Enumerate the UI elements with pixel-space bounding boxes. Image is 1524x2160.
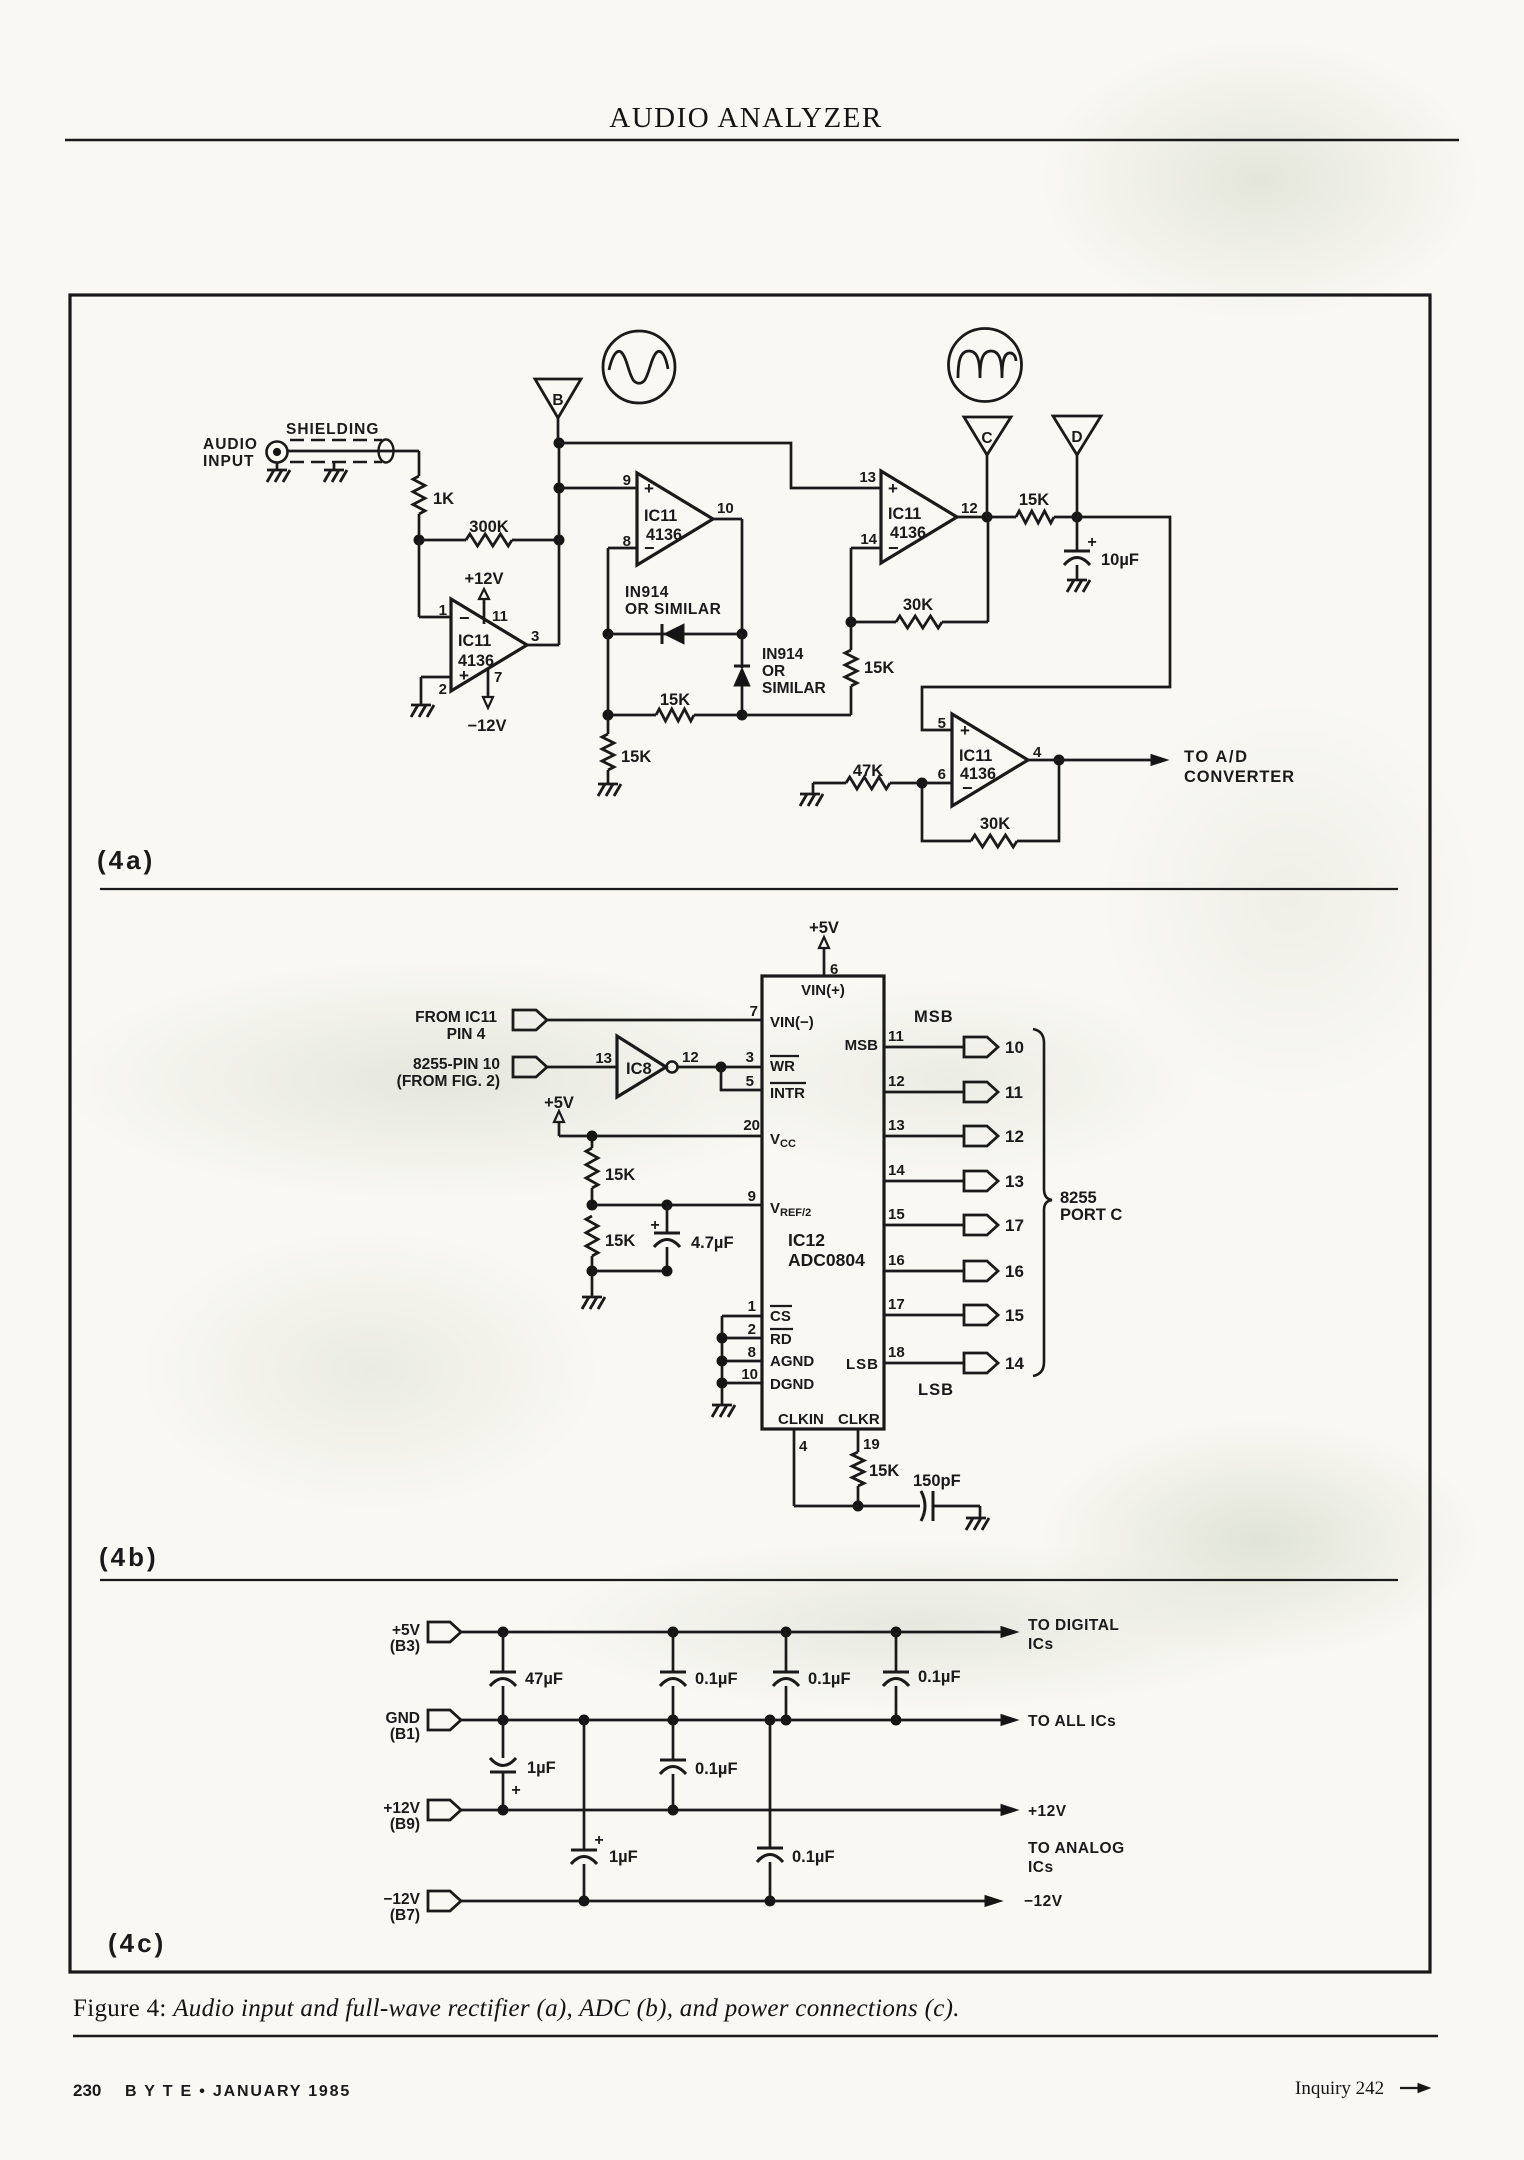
wire to INTR pin 5 xyxy=(721,1067,762,1090)
svg-text:FROM IC11: FROM IC11 xyxy=(415,1009,497,1026)
svg-text:TO ANALOG: TO ANALOG xyxy=(1028,1840,1125,1857)
svg-text:15K: 15K xyxy=(621,748,651,766)
output pin 13 wire to port bit 12 xyxy=(884,1135,964,1138)
terminal triangle B xyxy=(535,379,581,418)
svg-text:(FROM FIG. 2): (FROM FIG. 2) xyxy=(397,1073,500,1090)
svg-text:ICs: ICs xyxy=(1028,1859,1054,1876)
output connector 16 xyxy=(964,1261,998,1281)
svg-text:1K: 1K xyxy=(433,490,454,508)
svg-text:(B9): (B9) xyxy=(390,1816,420,1833)
resistor 15K upper divider xyxy=(591,1136,594,1148)
node dots +12V rail xyxy=(498,1805,508,1815)
node CLK junction xyxy=(853,1501,863,1511)
svg-text:VIN(−): VIN(−) xyxy=(770,1014,814,1031)
svg-text:VREF/2: VREF/2 xyxy=(770,1200,811,1219)
svg-text:12: 12 xyxy=(961,500,978,517)
divider line between 4b and 4c xyxy=(100,1579,1398,1581)
capacitor 0.1uF (e) xyxy=(757,1847,783,1850)
svg-text:+: + xyxy=(960,721,970,740)
svg-text:TO A/D: TO A/D xyxy=(1184,748,1249,766)
svg-text:WR: WR xyxy=(770,1058,795,1075)
svg-text:IN914: IN914 xyxy=(762,646,804,663)
wire 30K up to output node xyxy=(987,517,990,622)
svg-text:11: 11 xyxy=(888,1028,904,1045)
audio input connector xyxy=(267,442,288,463)
svg-text:Inquiry 242: Inquiry 242 xyxy=(1295,2078,1384,2099)
svg-text:1µF: 1µF xyxy=(609,1848,638,1866)
output connector 12 xyxy=(964,1126,998,1146)
svg-text:LSB: LSB xyxy=(846,1356,879,1373)
svg-text:Figure 4: Audio input and full: Figure 4: Audio input and full-wave rect… xyxy=(73,1995,960,2022)
svg-text:ICs: ICs xyxy=(1028,1636,1054,1653)
figure outer border frame xyxy=(70,295,1430,1972)
wire GND to -12V (left) xyxy=(583,1720,586,1850)
node VREF junction xyxy=(587,1200,597,1210)
svg-text:10: 10 xyxy=(741,1366,758,1383)
node diode right xyxy=(737,629,747,639)
svg-text:15K: 15K xyxy=(605,1166,635,1184)
wire 15K row to right column xyxy=(742,714,851,717)
svg-text:INPUT: INPUT xyxy=(203,453,255,470)
terminal triangle C xyxy=(964,417,1011,455)
pin 7 -12V supply arrow xyxy=(487,668,490,697)
svg-text:12: 12 xyxy=(682,1049,699,1066)
node 300K right end xyxy=(554,535,564,545)
ground at shield tube xyxy=(333,462,336,470)
wire 150pF to ground xyxy=(933,1505,980,1508)
wire output to A/D arrow xyxy=(1028,759,1160,762)
wire op-amp IC11a output xyxy=(527,644,559,647)
ground below 10uF xyxy=(1067,579,1087,582)
inverter IC8 xyxy=(617,1036,666,1097)
pin 11 +12V supply arrow xyxy=(483,600,486,624)
output connector 11 xyxy=(964,1082,998,1102)
pin 19 wire CLKR with 15K xyxy=(857,1429,860,1452)
svg-text:8255: 8255 xyxy=(1060,1189,1097,1207)
svg-text:1: 1 xyxy=(439,602,447,619)
svg-text:3: 3 xyxy=(531,628,539,645)
svg-text:−12V: −12V xyxy=(383,1891,420,1908)
svg-text:4136: 4136 xyxy=(646,526,682,544)
output connector 14 xyxy=(964,1353,998,1373)
svg-text:IC8: IC8 xyxy=(626,1060,652,1078)
op-amp IC11b 4136 xyxy=(637,473,713,565)
wire audio center conductor xyxy=(287,450,419,453)
op-amp IC11a 4136 xyxy=(451,599,527,691)
sine-wave symbol circle xyxy=(603,331,675,403)
capacitor 0.1uF (b) xyxy=(785,1632,788,1672)
node WR/INTR junction xyxy=(716,1062,726,1072)
svg-text:4: 4 xyxy=(1033,744,1042,761)
capacitor 10uF xyxy=(1076,517,1079,551)
svg-text:IC12: IC12 xyxy=(788,1230,825,1250)
svg-text:OR: OR xyxy=(762,663,785,680)
svg-text:12: 12 xyxy=(1005,1127,1024,1146)
output pin 12 wire to port bit 11 xyxy=(884,1091,964,1094)
power rail &#8722;12V xyxy=(461,1900,988,1903)
svg-text:15K: 15K xyxy=(1019,491,1049,509)
brace 8255 PORT C xyxy=(1033,1029,1052,1376)
op-amp IC11d 4136 xyxy=(952,714,1028,806)
output connector 13 xyxy=(964,1171,998,1191)
svg-text:+: + xyxy=(594,1832,603,1849)
wire node to pin 6 xyxy=(922,782,952,785)
svg-text:14: 14 xyxy=(1005,1354,1024,1373)
svg-text:3: 3 xyxy=(746,1049,754,1066)
svg-text:MSB: MSB xyxy=(914,1008,954,1026)
svg-text:16: 16 xyxy=(888,1252,905,1269)
capacitor 1uF polarized (top) xyxy=(502,1720,505,1758)
svg-text:2: 2 xyxy=(748,1321,756,1338)
svg-text:IN914: IN914 xyxy=(625,584,669,601)
output connector 15 xyxy=(964,1305,998,1325)
full-wave symbol circle xyxy=(949,329,1022,402)
svg-text:VIN(+): VIN(+) xyxy=(801,982,845,999)
svg-text:4: 4 xyxy=(799,1438,808,1455)
node 1K/300K junction xyxy=(414,535,424,545)
svg-text:(B3): (B3) xyxy=(390,1638,420,1655)
svg-text:CONVERTER: CONVERTER xyxy=(1184,768,1295,786)
svg-text:15K: 15K xyxy=(864,659,894,677)
svg-text:CS: CS xyxy=(770,1308,791,1325)
svg-text:4136: 4136 xyxy=(960,765,996,783)
svg-text:13: 13 xyxy=(1005,1172,1024,1191)
output pin 16 wire to port bit 16 xyxy=(884,1270,964,1273)
svg-text:4136: 4136 xyxy=(458,652,494,670)
node C junction xyxy=(982,512,992,522)
svg-text:13: 13 xyxy=(859,469,876,486)
wire IC11b output down xyxy=(713,518,742,521)
svg-text:11: 11 xyxy=(1005,1083,1023,1102)
svg-text:17: 17 xyxy=(888,1296,905,1313)
node diode left xyxy=(603,629,613,639)
wire node down to op-amp pin 1 xyxy=(418,540,421,617)
svg-text:230: 230 xyxy=(73,2081,101,2100)
svg-text:+5V: +5V xyxy=(809,919,839,937)
svg-text:−: − xyxy=(459,608,470,628)
wire input to 1K resistor xyxy=(418,451,421,476)
svg-text:VCC: VCC xyxy=(770,1131,796,1150)
diode IN914 horizontal xyxy=(608,633,742,636)
svg-text:7: 7 xyxy=(494,669,502,686)
svg-text:30K: 30K xyxy=(903,596,933,614)
svg-text:IC11: IC11 xyxy=(959,747,992,765)
svg-text:10: 10 xyxy=(1005,1038,1024,1057)
node output junction xyxy=(1054,755,1064,765)
svg-text:12: 12 xyxy=(888,1073,905,1090)
capacitor 0.1uF (d) xyxy=(672,1720,675,1760)
svg-text:SIMILAR: SIMILAR xyxy=(762,680,826,697)
svg-text:INTR: INTR xyxy=(770,1085,805,1102)
wire IC11c output xyxy=(957,516,988,519)
wire D node loop to IC11d pin 5 xyxy=(922,517,1170,730)
resistor 1K xyxy=(413,476,425,514)
svg-text:14: 14 xyxy=(860,531,877,548)
svg-text:15: 15 xyxy=(888,1206,905,1223)
wire B vertical column xyxy=(558,443,561,645)
node pin 9 junction xyxy=(554,483,564,493)
svg-text:+12V: +12V xyxy=(383,1800,420,1817)
wire to inverter IC8 xyxy=(547,1066,617,1069)
svg-text:13: 13 xyxy=(595,1050,612,1067)
svg-text:13: 13 xyxy=(888,1117,905,1134)
svg-text:7: 7 xyxy=(750,1003,758,1020)
svg-text:5: 5 xyxy=(938,715,946,732)
svg-text:6: 6 xyxy=(938,766,946,783)
wire left column to 15K ground leg xyxy=(607,634,610,734)
power rail GND xyxy=(461,1719,1004,1722)
output pin 17 wire to port bit 15 xyxy=(884,1314,964,1317)
resistor 15K between C and D xyxy=(987,516,1016,519)
power rail +12V xyxy=(461,1809,1004,1812)
svg-text:10µF: 10µF xyxy=(1101,551,1139,569)
resistor 15K CLKR xyxy=(852,1452,864,1486)
svg-text:15: 15 xyxy=(1005,1306,1024,1325)
svg-text:OR SIMILAR: OR SIMILAR xyxy=(625,601,721,618)
svg-text:8255-PIN 10: 8255-PIN 10 xyxy=(413,1056,500,1073)
node dots GND rail xyxy=(498,1715,508,1725)
resistor 300K xyxy=(419,539,466,542)
wire CLKIN to 150pF xyxy=(794,1505,920,1508)
svg-text:1µF: 1µF xyxy=(527,1759,556,1777)
wire 300K to B column xyxy=(512,539,559,542)
svg-text:SHIELDING: SHIELDING xyxy=(286,421,379,438)
svg-text:8: 8 xyxy=(748,1344,756,1361)
diode IN914 vertical xyxy=(741,634,744,668)
svg-text:+: + xyxy=(888,479,898,498)
output connector 10 xyxy=(964,1037,998,1057)
svg-text:0.1µF: 0.1µF xyxy=(808,1670,851,1688)
wire to VREF/2 pin 9 xyxy=(592,1204,762,1207)
svg-text:PORT C: PORT C xyxy=(1060,1206,1122,1224)
output pin 11 wire to port bit 10 xyxy=(884,1046,964,1049)
svg-text:5: 5 xyxy=(746,1073,754,1090)
wire to pin 7 xyxy=(547,1019,762,1022)
wire IC8 to WR xyxy=(678,1066,762,1069)
output pin 18 wire to port bit 14 xyxy=(884,1362,964,1365)
svg-text:GND: GND xyxy=(386,1710,420,1727)
node 30K/15K junction xyxy=(846,617,856,627)
capacitor 1uF polarized (bottom) xyxy=(571,1849,597,1852)
resistor 30K feedback IC11c xyxy=(851,621,896,624)
svg-text:(4b): (4b) xyxy=(99,1542,159,1572)
svg-text:(4c): (4c) xyxy=(108,1928,166,1958)
svg-text:DGND: DGND xyxy=(770,1376,814,1393)
node dots +5V rail xyxy=(498,1627,508,1637)
power rail +5V xyxy=(461,1631,1004,1634)
svg-text:0.1µF: 0.1µF xyxy=(792,1848,835,1866)
node B junction xyxy=(554,438,564,448)
svg-text:+: + xyxy=(1087,534,1096,551)
svg-text:B: B xyxy=(552,392,563,409)
wire B node to IC11c pin 13 xyxy=(559,443,881,488)
svg-text:CLKIN: CLKIN xyxy=(778,1411,824,1428)
svg-text:IC11: IC11 xyxy=(458,632,491,650)
ground below divider xyxy=(591,1271,594,1297)
capacitor 0.1uF (c) xyxy=(895,1632,898,1672)
resistor 15K vertical mid xyxy=(850,622,853,650)
svg-text:+: + xyxy=(644,479,654,498)
wire +5V to VCC pin 20 xyxy=(559,1135,762,1138)
wire pin 14 xyxy=(851,547,881,550)
output connector 17 xyxy=(964,1215,998,1235)
wire 1K to node xyxy=(418,514,421,540)
svg-text:9: 9 xyxy=(748,1188,756,1205)
svg-text:15K: 15K xyxy=(869,1462,899,1480)
node pin 6 junction xyxy=(917,778,927,788)
ground at control pins xyxy=(712,1404,732,1407)
resistor 47K to ground xyxy=(813,782,846,785)
capacitor 4.7uF xyxy=(666,1205,669,1233)
svg-text:D: D xyxy=(1071,429,1082,446)
svg-text:0.1µF: 0.1µF xyxy=(918,1668,961,1686)
svg-text:300K: 300K xyxy=(469,518,509,536)
svg-text:20: 20 xyxy=(743,1117,760,1134)
svg-text:LSB: LSB xyxy=(918,1381,954,1399)
wire and ground below 15K xyxy=(607,770,610,784)
svg-text:+12V: +12V xyxy=(1028,1803,1067,1820)
svg-text:19: 19 xyxy=(863,1436,880,1453)
resistor 15K to ground xyxy=(602,734,614,770)
svg-text:IC11: IC11 xyxy=(644,507,677,525)
resistor 30K feedback IC11d xyxy=(922,783,971,841)
svg-text:47K: 47K xyxy=(853,762,883,780)
wire B node to IC11b pin 9 xyxy=(559,487,637,490)
svg-text:+: + xyxy=(511,1782,520,1799)
IC12 ADC0804 body xyxy=(762,976,884,1429)
svg-text:18: 18 xyxy=(888,1344,905,1361)
svg-text:IC11: IC11 xyxy=(888,505,921,523)
svg-text:10: 10 xyxy=(717,500,734,517)
svg-text:C: C xyxy=(981,430,992,447)
capacitor 47uF xyxy=(502,1632,505,1672)
svg-text:15K: 15K xyxy=(605,1232,635,1250)
svg-text:B Y T E • JANUARY 1985: B Y T E • JANUARY 1985 xyxy=(125,2083,351,2100)
svg-text:MSB: MSB xyxy=(845,1037,879,1054)
ground at 150pF xyxy=(966,1517,986,1520)
svg-text:11: 11 xyxy=(492,608,508,625)
node VCC/15K junction xyxy=(587,1131,597,1141)
wire pin 2 to ground xyxy=(421,676,451,679)
control pins CS RD AGND DGND tie-down xyxy=(722,1315,762,1318)
svg-text:TO ALL ICs: TO ALL ICs xyxy=(1028,1713,1116,1730)
ground at 47K xyxy=(812,783,815,794)
svg-text:−12V: −12V xyxy=(1024,1893,1063,1910)
svg-text:(4a): (4a) xyxy=(97,845,155,875)
node dots -12V rail xyxy=(579,1896,589,1906)
svg-text:47µF: 47µF xyxy=(525,1670,563,1688)
svg-text:0.1µF: 0.1µF xyxy=(695,1760,738,1778)
svg-text:(B1): (B1) xyxy=(390,1726,420,1743)
capacitor 150pF xyxy=(921,1491,925,1521)
resistor 15K lower-left row xyxy=(608,714,656,717)
resistor 15K lower divider xyxy=(586,1216,598,1256)
svg-text:AGND: AGND xyxy=(770,1353,814,1370)
wire cap bottom to divider bottom xyxy=(592,1270,667,1273)
node D junction xyxy=(1072,512,1082,522)
svg-text:ADC0804: ADC0804 xyxy=(788,1250,865,1270)
svg-text:150pF: 150pF xyxy=(913,1472,961,1490)
header rule xyxy=(65,139,1459,142)
node divider bottom xyxy=(587,1266,597,1276)
pin 4 wire CLKIN xyxy=(793,1429,796,1506)
svg-text:−12V: −12V xyxy=(468,717,507,735)
divider line between 4a and 4b xyxy=(100,888,1398,890)
output pin 14 wire to port bit 13 xyxy=(884,1180,964,1183)
svg-text:1: 1 xyxy=(748,1298,756,1315)
svg-text:+5V: +5V xyxy=(392,1622,421,1639)
node 15K row left xyxy=(603,710,613,720)
wire GND to -12V (right) xyxy=(769,1720,772,1848)
svg-text:2: 2 xyxy=(439,681,447,698)
svg-text:AUDIO: AUDIO xyxy=(203,436,258,453)
svg-text:(B7): (B7) xyxy=(390,1907,420,1924)
svg-text:RD: RD xyxy=(770,1331,792,1348)
svg-text:CLKR: CLKR xyxy=(838,1411,880,1428)
wire pin 8 feedback xyxy=(608,547,637,550)
svg-text:9: 9 xyxy=(623,472,631,489)
svg-text:17: 17 xyxy=(1005,1216,1024,1235)
node 4.7uF top xyxy=(662,1200,672,1210)
shield tube dashed outline xyxy=(290,439,382,441)
svg-text:4136: 4136 xyxy=(890,524,926,542)
ground at connector xyxy=(276,462,279,470)
caption rule xyxy=(73,2035,1438,2037)
svg-text:0.1µF: 0.1µF xyxy=(695,1670,738,1688)
svg-text:15K: 15K xyxy=(660,691,690,709)
svg-text:+12V: +12V xyxy=(465,570,504,588)
ground at op-amp IC11a pin 2 xyxy=(411,704,431,707)
svg-text:16: 16 xyxy=(1005,1262,1024,1281)
svg-text:4.7µF: 4.7µF xyxy=(691,1234,734,1252)
node 15K row right xyxy=(737,710,747,720)
svg-text:14: 14 xyxy=(888,1162,905,1179)
terminal triangle D xyxy=(1053,416,1101,455)
svg-text:TO DIGITAL: TO DIGITAL xyxy=(1028,1617,1119,1634)
svg-text:PIN 4: PIN 4 xyxy=(447,1026,486,1043)
svg-text:AUDIO ANALYZER: AUDIO ANALYZER xyxy=(609,102,882,134)
svg-text:+: + xyxy=(650,1217,659,1234)
output pin 15 wire to port bit 17 xyxy=(884,1224,964,1227)
svg-text:30K: 30K xyxy=(980,815,1010,833)
capacitor 0.1uF (a) xyxy=(672,1632,675,1672)
op-amp IC11c 4136 xyxy=(881,471,957,563)
